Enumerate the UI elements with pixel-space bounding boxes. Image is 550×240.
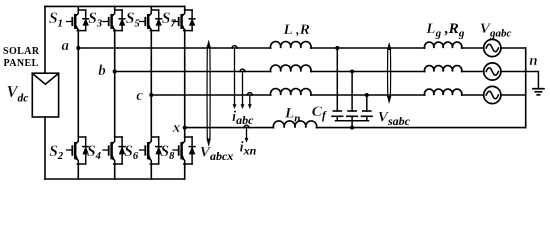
svg-text:Cf: Cf <box>312 103 327 122</box>
wire: phase a line <box>78 47 525 49</box>
wire: leg 3 drop from rail <box>150 6 152 10</box>
wire: DC- bottom rail <box>45 178 184 180</box>
current arrow i_b with hop on line b <box>240 69 245 71</box>
wire: Cf common bar <box>336 120 369 122</box>
inductor Lg,Rg phase a <box>424 42 461 48</box>
transistor S7 <box>173 10 195 31</box>
node Cf-neutral junction dot <box>350 126 354 130</box>
wire: leg 1 to bottom rail <box>77 164 79 179</box>
source V_ga <box>484 39 501 56</box>
transistor S5 <box>140 10 162 31</box>
source V_gb <box>484 63 501 80</box>
wire: neutral bus n vertical <box>525 48 527 128</box>
wire: phase c line <box>151 94 525 96</box>
capacitor Cf phase c: tap dot <box>365 93 369 97</box>
transistor S6 <box>140 137 162 164</box>
transistor S3 <box>103 10 125 31</box>
ground <box>533 89 544 95</box>
wire: leg 3 vertical <box>150 31 152 137</box>
wire: leg 3 to bottom rail <box>150 164 152 179</box>
svg-text:Lg ,Rg: Lg ,Rg <box>425 20 465 40</box>
capacitor Cf phase c <box>362 95 373 121</box>
svg-text:SOLAR: SOLAR <box>3 46 40 57</box>
transistor S1 <box>67 10 89 31</box>
inductor Lg,Rg phase b <box>424 66 461 72</box>
probe ellipse V_sabc bundle <box>387 43 390 103</box>
wire: leg 1 drop from rail <box>77 6 79 10</box>
svg-text:c: c <box>136 88 143 104</box>
node c junction dot <box>149 93 153 97</box>
wire: leg 2 vertical <box>114 31 116 137</box>
svg-text:b: b <box>98 63 106 79</box>
svg-text:S8: S8 <box>161 143 176 162</box>
current arrow i_xn with hop on line x <box>244 125 249 127</box>
svg-text:ixn: ixn <box>240 140 257 158</box>
wire: leg 1 vertical <box>77 31 79 137</box>
svg-text:Vabcx: Vabcx <box>200 144 233 164</box>
svg-text:S4: S4 <box>87 143 101 162</box>
svg-text:iabc: iabc <box>232 109 254 127</box>
svg-text:S6: S6 <box>124 143 139 162</box>
wire: ground stub <box>526 72 539 89</box>
wire: leg 4 vertical <box>184 31 186 137</box>
inductor Ln neutral <box>273 121 316 128</box>
svg-text:x: x <box>172 120 181 136</box>
capacitor Cf phase a: tap dot <box>335 46 339 50</box>
svg-text:S1: S1 <box>49 10 63 29</box>
wire: DC+ top rail <box>45 5 185 7</box>
solar panel PV <box>32 73 58 117</box>
probe ellipse V_abcx bundle <box>207 41 210 146</box>
wire: leg 4 to bottom rail <box>184 164 186 179</box>
svg-text:S7: S7 <box>162 10 177 29</box>
node a junction dot <box>76 46 80 50</box>
current arrow i_a with hop on line a <box>232 46 237 48</box>
svg-text:S2: S2 <box>49 143 64 162</box>
inductor L,R phase b <box>270 65 311 71</box>
source V_gc <box>484 86 501 103</box>
wire: left DC link from solar panel to bottom rail <box>44 117 46 179</box>
wire: left DC link from top rail to solar panel <box>44 6 46 73</box>
capacitor Cf phase b <box>347 72 358 121</box>
svg-text:n: n <box>529 53 537 69</box>
svg-text:a: a <box>62 38 70 54</box>
transistor S2 <box>67 137 89 164</box>
svg-text:L ,R: L ,R <box>283 21 310 38</box>
inductor L,R phase a <box>270 42 311 48</box>
svg-text:PANEL: PANEL <box>4 58 39 69</box>
wire: phase b line <box>115 71 526 73</box>
inductor L,R phase c <box>270 89 311 95</box>
wire: leg 4 drop from rail <box>184 6 186 10</box>
wire: leg 2 to bottom rail <box>114 164 116 179</box>
node x junction dot <box>183 126 187 130</box>
wire: Cf star point drop to neutral <box>351 121 353 128</box>
svg-text:Ln: Ln <box>284 105 300 125</box>
node b junction dot <box>113 70 117 74</box>
svg-text:S5: S5 <box>126 10 140 29</box>
capacitor Cf phase b: tap dot <box>350 70 354 74</box>
inductor Lg,Rg phase c <box>424 89 461 95</box>
transistor S4 <box>103 137 125 164</box>
capacitor Cf phase a <box>332 48 343 121</box>
wire: leg 2 drop from rail <box>114 6 116 10</box>
svg-text:Vsabc: Vsabc <box>378 108 411 128</box>
svg-text:Vdc: Vdc <box>7 82 29 104</box>
transistor S8 <box>173 137 195 164</box>
wire: neutral x line <box>185 127 526 129</box>
svg-text:S3: S3 <box>88 10 102 29</box>
svg-text:Vgabc: Vgabc <box>480 20 512 39</box>
current arrow i_c with hop on line c <box>247 93 252 95</box>
